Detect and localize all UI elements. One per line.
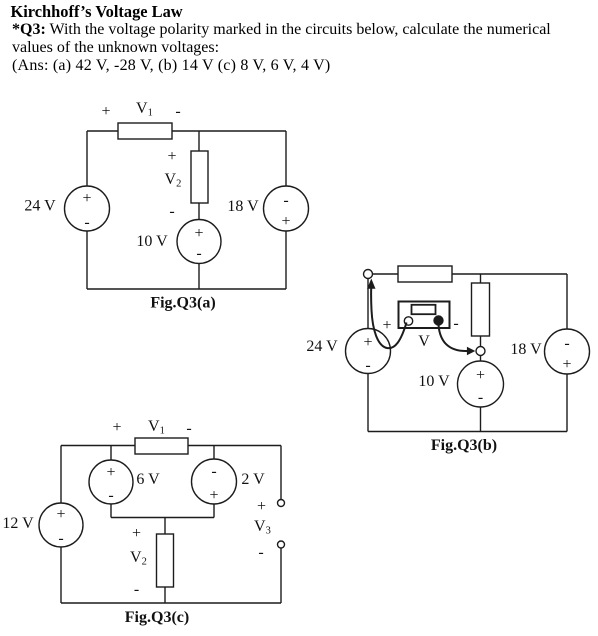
svg-text:+: + bbox=[132, 525, 141, 542]
terminal circle V3 + (fig c) bbox=[278, 500, 285, 507]
wire fig(a) top bbox=[87, 130, 286, 132]
svg-text:12 V: 12 V bbox=[2, 515, 34, 532]
wire fig(c) left (bottom segment) bbox=[60, 547, 62, 603]
polarity - inside 6V source (fig c) bbox=[108, 487, 113, 504]
voltage source 10 V (fig b) bbox=[458, 361, 504, 407]
wire fig(b) middle resistor to node bbox=[480, 336, 482, 347]
wire fig(c) 6V branch bottom bbox=[110, 504, 112, 518]
svg-text:V2: V2 bbox=[165, 171, 182, 190]
svg-text:+: + bbox=[476, 367, 485, 384]
wire fig(b) left below 24V source bbox=[367, 374, 369, 432]
wire fig(c) top bbox=[61, 445, 281, 447]
wire fig(a) left (top segment) bbox=[86, 131, 88, 186]
label 18 V (fig b) bbox=[510, 341, 542, 358]
svg-text:-: - bbox=[283, 192, 288, 209]
polarity - inside 12V source (fig c) bbox=[58, 530, 63, 547]
label + (left of V1, fig c) bbox=[112, 419, 121, 436]
svg-text:-: - bbox=[211, 463, 216, 480]
polarity + inside 2V source (fig c) bbox=[209, 487, 218, 504]
voltage source 10 V (fig a) bbox=[177, 220, 221, 264]
svg-text:+: + bbox=[562, 356, 571, 373]
svg-text:-: - bbox=[365, 357, 370, 374]
polarity - inside 24V source (fig a) bbox=[84, 214, 89, 231]
svg-text:+: + bbox=[56, 506, 65, 523]
svg-text:+: + bbox=[281, 213, 290, 230]
svg-text:6 V: 6 V bbox=[136, 471, 160, 488]
label V (voltmeter, fig b) bbox=[418, 333, 430, 350]
svg-text:24 V: 24 V bbox=[24, 198, 56, 215]
wire fig(c) 2V branch bottom bbox=[213, 504, 215, 518]
svg-text:+: + bbox=[194, 225, 203, 242]
polarity + inside 10V source (fig b) bbox=[476, 367, 485, 384]
polarity - inside 2V source (fig c) bbox=[211, 463, 216, 480]
label + (voltmeter left, fig b) bbox=[382, 317, 391, 334]
resistor V1 (fig a) bbox=[118, 123, 172, 139]
label 12 V (fig c) bbox=[2, 515, 34, 532]
wire fig(b) right (bottom segment) bbox=[566, 374, 568, 432]
svg-text:+: + bbox=[82, 190, 91, 207]
wire fig(a) middle branch between V2 and 10V source bbox=[198, 203, 200, 220]
label 24 V (fig b) bbox=[306, 338, 338, 355]
polarity + inside 24V source (fig b) bbox=[363, 334, 372, 351]
svg-text:+: + bbox=[167, 148, 176, 165]
wire fig(c) middle horizontal bbox=[111, 517, 214, 519]
polarity - inside 10V source (fig b) bbox=[478, 389, 483, 406]
svg-text:+: + bbox=[209, 487, 218, 504]
label V2 (fig c) bbox=[130, 549, 147, 568]
label - (right of V1, fig a) bbox=[175, 103, 180, 120]
label V1 (fig c) bbox=[148, 418, 165, 437]
svg-text:10 V: 10 V bbox=[418, 373, 450, 390]
label - (bottom of V2, fig a) bbox=[169, 203, 174, 220]
wire fig(b) top bbox=[372, 273, 567, 275]
node terminal circle top-left (fig b) bbox=[364, 270, 373, 279]
wire fig(c) V2 branch bottom bbox=[164, 587, 166, 603]
svg-text:V2: V2 bbox=[130, 549, 147, 568]
svg-text:-: - bbox=[84, 214, 89, 231]
wire fig(b) node to 10V source bbox=[480, 356, 482, 362]
label 18 V (fig a) bbox=[227, 198, 259, 215]
wire fig(c) 6V branch top bbox=[110, 446, 112, 461]
polarity + inside 18V source (fig b) bbox=[562, 356, 571, 373]
polarity + inside 10V source (fig a) bbox=[194, 225, 203, 242]
svg-text:Fig.Q3(b): Fig.Q3(b) bbox=[431, 437, 497, 454]
voltage source 2 V (fig c) bbox=[192, 459, 237, 504]
polarity + inside 18V source (fig a) bbox=[281, 213, 290, 230]
resistor V2 (fig c) bbox=[157, 534, 174, 587]
wire fig(a) left (bottom segment) bbox=[86, 231, 88, 289]
svg-text:Fig.Q3(c): Fig.Q3(c) bbox=[125, 609, 189, 626]
voltage source 6 V (fig c) bbox=[89, 460, 133, 504]
voltmeter U1 body (fig b) bbox=[399, 302, 450, 329]
voltage source 18 V (fig b) bbox=[545, 329, 590, 374]
svg-text:-: - bbox=[175, 103, 180, 120]
polarity + inside 24V source (fig a) bbox=[82, 190, 91, 207]
label - (right of V1, fig c) bbox=[186, 420, 191, 437]
svg-text:+: + bbox=[382, 317, 391, 334]
voltage source 24 V (fig a) bbox=[65, 186, 110, 231]
svg-text:-: - bbox=[186, 420, 191, 437]
label 2 V (fig c) bbox=[241, 471, 265, 488]
svg-text:-: - bbox=[169, 203, 174, 220]
label 10 V (fig b) bbox=[418, 373, 450, 390]
svg-text:-: - bbox=[108, 487, 113, 504]
voltmeter + probe terminal (open circle, fig b) bbox=[404, 317, 412, 325]
polarity + inside 6V source (fig c) bbox=[106, 464, 115, 481]
polarity + inside 12V source (fig c) bbox=[56, 506, 65, 523]
label + (left of V1, fig a) bbox=[101, 103, 110, 120]
polarity - inside 18V source (fig b) bbox=[564, 335, 569, 352]
svg-text:+: + bbox=[257, 498, 266, 515]
wire fig(c) right top to V3 terminal bbox=[280, 446, 282, 500]
svg-text:V3: V3 bbox=[254, 518, 271, 537]
voltmeter display window (fig b) bbox=[412, 305, 436, 314]
svg-text:24 V: 24 V bbox=[306, 338, 338, 355]
probe lead from + terminal to top-left node (fig b) bbox=[367, 279, 406, 349]
wire fig(b) bottom bbox=[368, 431, 567, 433]
svg-text:+: + bbox=[112, 419, 121, 436]
svg-text:V1: V1 bbox=[148, 418, 165, 437]
svg-text:-: - bbox=[134, 581, 139, 598]
label - (voltmeter right, fig b) bbox=[453, 315, 458, 332]
label V3 (fig c) bbox=[254, 518, 271, 537]
wire fig(b) right (top segment) bbox=[566, 274, 568, 329]
wire fig(c) bottom bbox=[61, 602, 281, 604]
resistor middle (fig b) bbox=[472, 283, 490, 336]
label + (top of V3, fig c) bbox=[257, 498, 266, 515]
svg-text:+: + bbox=[363, 334, 372, 351]
wire fig(c) 2V branch top bbox=[213, 446, 215, 460]
svg-text:+: + bbox=[106, 464, 115, 481]
svg-text:-: - bbox=[258, 544, 263, 561]
label + (top of V2, fig c) bbox=[132, 525, 141, 542]
wire fig(c) left (top segment) bbox=[60, 446, 62, 504]
label + (top of V2, fig a) bbox=[167, 148, 176, 165]
wire fig(a) right (bottom segment) bbox=[285, 231, 287, 289]
caption Fig.Q3(a) bbox=[150, 295, 215, 312]
label 6 V (fig c) bbox=[136, 471, 160, 488]
voltage source 12 V (fig c) bbox=[39, 503, 83, 547]
probe lead from - terminal to node above 10V (fig b) bbox=[439, 325, 476, 355]
label V1 (fig a) bbox=[136, 100, 153, 119]
polarity - inside 24V source (fig b) bbox=[365, 357, 370, 374]
svg-text:+: + bbox=[101, 103, 110, 120]
terminal circle V3 - (fig c) bbox=[278, 541, 285, 548]
svg-text:2 V: 2 V bbox=[241, 471, 265, 488]
svg-text:-: - bbox=[58, 530, 63, 547]
resistor top (fig b) bbox=[398, 266, 452, 282]
svg-text:-: - bbox=[196, 245, 201, 262]
svg-text:-: - bbox=[453, 315, 458, 332]
polarity - inside 10V source (fig a) bbox=[196, 245, 201, 262]
svg-text:18 V: 18 V bbox=[227, 198, 259, 215]
resistor V2 (fig a) bbox=[191, 151, 208, 203]
wire fig(c) right below V3 terminal bbox=[280, 548, 282, 603]
svg-text:-: - bbox=[564, 335, 569, 352]
polarity - inside 18V source (fig a) bbox=[283, 192, 288, 209]
svg-text:18 V: 18 V bbox=[510, 341, 542, 358]
wire fig(a) bottom bbox=[87, 288, 286, 290]
wire fig(a) middle branch below 10V source bbox=[198, 263, 200, 289]
svg-text:10 V: 10 V bbox=[136, 233, 168, 250]
wire fig(b) below 10V source bbox=[480, 407, 482, 432]
svg-text:Fig.Q3(a): Fig.Q3(a) bbox=[150, 295, 215, 312]
label - (bottom of V3, fig c) bbox=[258, 544, 263, 561]
label V2 (fig a) bbox=[165, 171, 182, 190]
svg-text:V: V bbox=[418, 333, 430, 350]
svg-text:-: - bbox=[478, 389, 483, 406]
caption Fig.Q3(b) bbox=[431, 437, 497, 454]
wire fig(a) middle branch top bbox=[198, 131, 200, 151]
voltage source 24 V (fig b) bbox=[346, 329, 391, 374]
node terminal circle above 10V source (fig b) bbox=[476, 347, 485, 356]
wire fig(c) V2 branch top bbox=[164, 518, 166, 535]
label 24 V (fig a) bbox=[24, 198, 56, 215]
wire fig(b) left node to 24V source bbox=[367, 279, 369, 330]
label 10 V (fig a) bbox=[136, 233, 168, 250]
wire fig(a) right (top segment) bbox=[285, 131, 287, 186]
svg-text:V1: V1 bbox=[136, 100, 153, 119]
voltmeter - probe terminal (filled circle, fig b) bbox=[434, 316, 443, 325]
resistor V1 (fig c) bbox=[135, 438, 188, 454]
voltage source 18 V (fig a) bbox=[264, 186, 309, 231]
label - (bottom of V2, fig c) bbox=[134, 581, 139, 598]
caption Fig.Q3(c) bbox=[125, 609, 189, 626]
wire fig(b) middle branch top bbox=[480, 274, 482, 283]
